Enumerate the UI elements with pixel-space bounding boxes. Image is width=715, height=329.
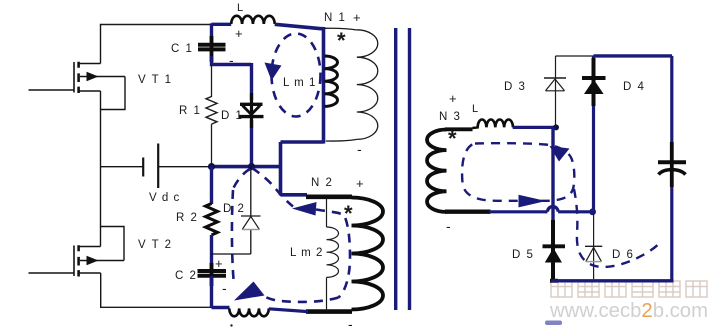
VT2 body arrow <box>87 256 99 265</box>
wire thin center branch to R1 <box>211 65 213 97</box>
diode D4 <box>582 76 606 80</box>
flux loop secondary outer dashed <box>574 189 660 267</box>
transistor VT1 <box>29 24 126 110</box>
wire navy secondary bottom rail <box>551 279 674 282</box>
winding N2 <box>352 198 384 310</box>
wire black N3 bottom bar <box>445 209 491 213</box>
wire navy D4 branch <box>592 56 595 212</box>
watermark blue dash bottom-left <box>545 321 562 326</box>
diode D5 <box>543 244 566 248</box>
svg-text:D 6: D 6 <box>612 249 634 261</box>
gate bar <box>73 246 75 277</box>
wire navy secondary mid rail with hop <box>489 207 593 212</box>
wire navy node to R2 <box>210 167 213 204</box>
body loop to drain <box>101 227 125 261</box>
wire VT2 drain stub <box>79 246 101 248</box>
svg-text:+: + <box>215 256 223 271</box>
diode D2 <box>241 216 261 230</box>
gate bar <box>73 62 75 93</box>
node dot C <box>553 124 559 130</box>
svg-text:R 2: R 2 <box>176 212 198 224</box>
svg-text:V T 2: V T 2 <box>138 239 173 251</box>
svg-text:-: - <box>222 280 227 296</box>
svg-text:D 3: D 3 <box>504 81 526 93</box>
svg-text:D 2: D 2 <box>223 203 245 215</box>
svg-text:D 5: D 5 <box>512 249 534 261</box>
svg-text:V T 1: V T 1 <box>138 74 173 86</box>
wire VT1 drain <box>100 24 102 64</box>
svg-text:D 4: D 4 <box>623 81 645 93</box>
resistor R2 <box>206 204 218 235</box>
wire navy L to node <box>513 126 556 129</box>
Lm2 loop arrow lower <box>234 282 265 301</box>
svg-text:-: - <box>446 218 451 234</box>
wire battery right <box>158 166 209 168</box>
wire navy bottom to N2 <box>269 309 308 312</box>
flux loop Lm2 dashed <box>232 168 350 302</box>
svg-text:V d c: V d c <box>149 192 180 204</box>
node dot D <box>589 208 596 215</box>
capacitor C1 <box>210 36 214 62</box>
flux loop Lm1 dashed <box>272 34 321 117</box>
wire battery left <box>101 166 144 168</box>
battery Vdc <box>101 144 210 189</box>
inductor L secondary <box>473 119 514 128</box>
battery short plate <box>142 158 144 177</box>
svg-text:-: - <box>348 316 353 329</box>
svg-text:R 1: R 1 <box>179 105 201 117</box>
svg-text:-: - <box>357 141 362 157</box>
diode D2 branch thin wire <box>212 167 251 254</box>
wire navy N1 bottom jog <box>281 142 324 196</box>
svg-text:C 2: C 2 <box>175 270 197 282</box>
winding N1 <box>325 28 378 141</box>
Lm1 loop arrow <box>265 63 282 81</box>
inductor L (top) <box>212 23 232 26</box>
svg-text:*: * <box>337 28 346 53</box>
inner loop arrow right <box>519 195 547 208</box>
svg-text:N 2: N 2 <box>311 177 333 189</box>
capacitor Cout <box>670 142 674 187</box>
channel segments <box>77 62 80 93</box>
inductor Lm1 (magnetizing) <box>325 56 338 106</box>
diode D1 branch navy wire <box>250 63 253 167</box>
Lm2 loop arrow left <box>292 202 317 216</box>
svg-text:www.cecb2b.com: www.cecb2b.com <box>549 299 708 322</box>
node dot A <box>208 163 215 170</box>
flux loop secondary inner dashed <box>462 143 574 201</box>
wire navy R2 to C2 <box>210 235 213 270</box>
wire navy C2 to bottom rail <box>212 276 230 308</box>
inductor L (bottom) <box>229 308 269 316</box>
resistor R1 <box>206 97 217 125</box>
wire thin D3 branch <box>556 56 594 127</box>
diode D6 <box>585 246 602 261</box>
wire VT2 gate lead <box>29 272 75 274</box>
wire black N3 top bar <box>445 127 473 131</box>
svg-text:N 3: N 3 <box>439 111 461 123</box>
wire navy top drop to C1 <box>210 23 213 42</box>
wire navy to N2 <box>281 193 308 197</box>
winding N3 <box>427 130 447 212</box>
channel segments <box>77 245 80 276</box>
wire navy right vertical <box>670 56 673 281</box>
wire thin R1 to node <box>211 124 213 167</box>
svg-text:*: * <box>448 126 457 151</box>
svg-text:L: L <box>237 2 243 14</box>
svg-text:+: + <box>449 91 457 106</box>
wire top rail <box>101 24 212 26</box>
svg-text:L: L <box>472 103 478 115</box>
wire thin D6 branch <box>593 212 595 279</box>
inner loop arrow up <box>550 146 570 162</box>
wire bottom rail <box>100 306 212 308</box>
transistor VT2 <box>29 227 125 308</box>
svg-text:N 1: N 1 <box>324 12 346 24</box>
svg-text:+: + <box>356 176 364 191</box>
body stub with arrow <box>80 76 125 78</box>
wire navy below C1 <box>210 56 252 66</box>
battery long plate <box>157 144 159 189</box>
svg-text:+: + <box>353 10 361 25</box>
transformer core bars <box>394 28 397 310</box>
wire VT1 gate lead <box>29 89 75 91</box>
wire black N2 bottom bar <box>306 309 352 314</box>
svg-text:+: + <box>235 26 243 41</box>
wire navy top right <box>594 54 673 57</box>
wire navy L to N1 corner <box>275 24 324 143</box>
svg-text:D 1: D 1 <box>221 110 243 122</box>
wire VT1 source stub <box>79 90 101 92</box>
VT1 body arrow <box>87 72 99 81</box>
tiny mark below bottom L <box>230 324 232 326</box>
wire left rail (VT1 source to VT2 drain) <box>100 91 102 247</box>
diode D1 <box>239 104 264 116</box>
wire node row <box>210 165 281 169</box>
svg-text:C 1: C 1 <box>171 43 193 55</box>
svg-text:L m 2: L m 2 <box>290 247 323 259</box>
wire black N2 top bar <box>306 195 352 200</box>
inductor Lm2 <box>327 199 339 311</box>
capacitor C2 <box>210 263 214 286</box>
watermark chinese characters (approximated glyph blocks) <box>551 281 707 297</box>
diode D3 <box>544 78 566 91</box>
svg-text:L m 1: L m 1 <box>283 77 316 89</box>
wire navy node to D5 <box>551 127 554 222</box>
node dot B <box>248 163 255 170</box>
wire VT2 source stub <box>79 272 101 274</box>
